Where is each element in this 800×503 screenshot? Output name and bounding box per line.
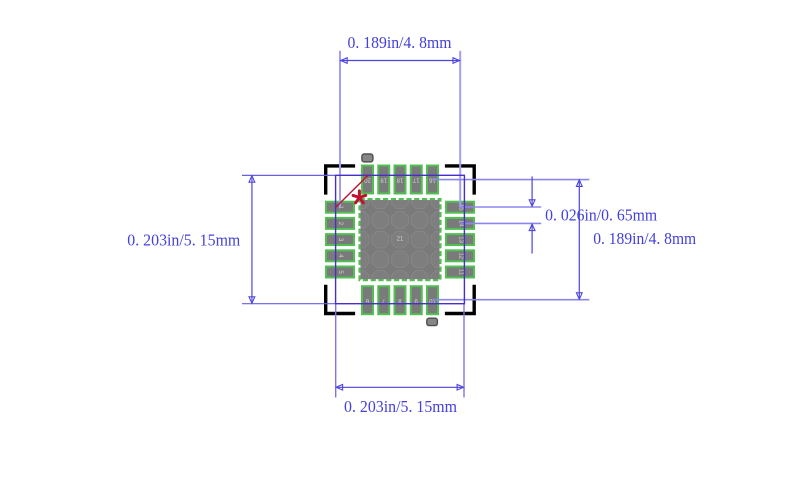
pin 1 indicator diagonal line xyxy=(336,175,368,207)
left dimension extension line bottom xyxy=(242,303,337,305)
pad 6 (bottom row) xyxy=(362,286,373,314)
bottom dimension arrow right xyxy=(457,385,464,391)
pad 18 (top row) xyxy=(395,166,406,194)
svg-text:12: 12 xyxy=(457,252,463,259)
pad 19 (top row) xyxy=(378,166,389,194)
pad 9 (bottom row) xyxy=(411,286,422,314)
pad 8 (bottom row) xyxy=(395,286,406,314)
exposed pad 21 copper xyxy=(361,200,440,279)
pad 17 (top row) xyxy=(411,166,422,194)
pitch dimension upper line xyxy=(531,176,533,205)
pitch dimension lower line xyxy=(531,225,533,254)
bottom dimension extension line left (courtyard left edge) xyxy=(335,304,337,398)
pad 20 (top row) xyxy=(362,166,373,194)
exposed pad 21 paste outline (green dashed) xyxy=(360,199,441,280)
pad 1 (left column) xyxy=(326,202,354,213)
bottom-left corner bracket xyxy=(324,285,355,315)
svg-text:19: 19 xyxy=(380,177,387,183)
svg-text:18: 18 xyxy=(396,177,403,183)
svg-text:11: 11 xyxy=(457,269,463,276)
left dimension arrow top xyxy=(249,176,255,183)
left dimension extension line top (courtyard top edge level) xyxy=(242,174,337,176)
bottom dimension extension line right (courtyard right edge) xyxy=(463,304,465,398)
pad 15 (right column) xyxy=(446,202,474,213)
top-left corner bracket (package body outline) xyxy=(324,164,355,194)
pad 5 (left column) xyxy=(326,267,354,278)
pitch dimension upper arrow (points down) xyxy=(529,200,535,207)
top dimension extension line right (at right pad column center x=460.2) xyxy=(459,51,461,207)
svg-text:0. 189in/4. 8mm: 0. 189in/4. 8mm xyxy=(348,33,452,52)
right 4.8mm dimension arrow bottom xyxy=(576,293,582,300)
svg-text:13: 13 xyxy=(457,236,463,243)
pad 10 (bottom row) xyxy=(427,286,438,314)
bottom fiducial / polarity marker xyxy=(427,318,438,325)
pitch dimension extension line (pad 14 center) xyxy=(460,222,541,224)
exposed pad thermal via/paste octagon grid xyxy=(352,192,447,287)
top fiducial / polarity marker xyxy=(362,154,373,162)
pad 11 (right column) xyxy=(446,267,474,278)
svg-text:0. 203in/5. 15mm: 0. 203in/5. 15mm xyxy=(127,230,240,249)
courtyard outline (dark blue rectangle) xyxy=(336,175,465,303)
pitch dimension lower arrow (points up) xyxy=(529,224,535,231)
top dimension line xyxy=(340,60,459,62)
right 4.8mm dimension extension line bottom (pad 10 center) xyxy=(433,299,590,301)
pad 7 (bottom row) xyxy=(378,286,389,314)
right 4.8mm dimension arrow top xyxy=(576,180,582,187)
top dimension arrow right xyxy=(453,58,460,64)
pad 14 (right column) xyxy=(446,218,474,229)
pad 3 (left column) xyxy=(326,234,354,245)
pad 12 (right column) xyxy=(446,250,474,261)
pad 4 (left column) xyxy=(326,250,354,261)
top-right corner bracket xyxy=(445,164,476,194)
pad 13 (right column) xyxy=(446,234,474,245)
pitch dimension extension line (pad 15 center) xyxy=(460,206,541,208)
right 4.8mm dimension extension line top (pad 16 center) xyxy=(433,179,590,181)
pad 2 (left column) xyxy=(326,218,354,229)
right 4.8mm dimension line xyxy=(578,180,580,299)
left dimension arrow bottom xyxy=(249,297,255,304)
svg-text:0. 203in/5. 15mm: 0. 203in/5. 15mm xyxy=(344,397,457,416)
top dimension arrow left xyxy=(341,58,348,64)
top dimension extension line left (at left pad column center x=340) xyxy=(339,51,341,207)
svg-text:21: 21 xyxy=(397,237,404,243)
bottom-right corner bracket xyxy=(445,285,476,315)
left dimension line xyxy=(251,176,253,303)
pin 1 asterisk marker xyxy=(353,191,366,203)
bottom dimension line xyxy=(336,386,463,388)
svg-text:0. 189in/4. 8mm: 0. 189in/4. 8mm xyxy=(593,229,696,248)
pad 16 (top row) xyxy=(427,166,438,194)
svg-text:17: 17 xyxy=(412,177,419,183)
bottom dimension arrow left xyxy=(336,385,343,391)
svg-text:0. 026in/0. 65mm: 0. 026in/0. 65mm xyxy=(545,206,657,225)
